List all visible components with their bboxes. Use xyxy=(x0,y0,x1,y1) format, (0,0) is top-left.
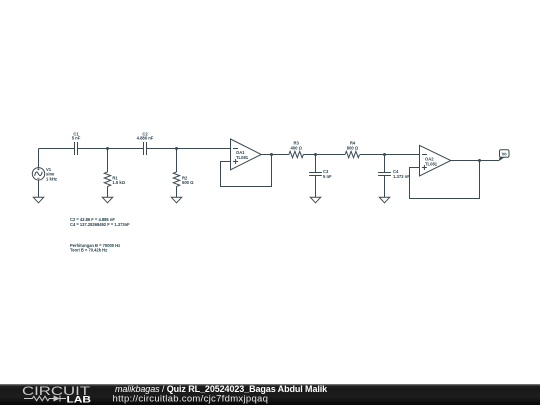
svg-text:TL081: TL081 xyxy=(236,155,249,160)
svg-text:1.373 nF: 1.373 nF xyxy=(393,174,410,179)
svg-text:500 Ω: 500 Ω xyxy=(182,180,194,185)
svg-text:4.886 nF: 4.886 nF xyxy=(137,136,154,141)
svg-text:http://circuitlab.com/cjc7fdmx: http://circuitlab.com/cjc7fdmxjpqaq xyxy=(113,393,269,404)
svg-text:1.5 kΩ: 1.5 kΩ xyxy=(112,180,125,185)
svg-text:400 Ω: 400 Ω xyxy=(290,146,302,151)
svg-text:5 nF: 5 nF xyxy=(72,136,81,141)
svg-text:C4 = 137.28368492 F = 1.373nF: C4 = 137.28368492 F = 1.373nF xyxy=(70,222,130,227)
svg-text:R3: R3 xyxy=(294,140,300,145)
svg-text:800 Ω: 800 Ω xyxy=(347,146,359,151)
svg-text:5 nF: 5 nF xyxy=(323,174,332,179)
svg-text:R4: R4 xyxy=(350,140,356,145)
svg-text:Vo: Vo xyxy=(502,152,507,157)
svg-text:LAB: LAB xyxy=(67,394,92,404)
svg-text:Teori B = 70.42k Hz: Teori B = 70.42k Hz xyxy=(70,247,107,252)
svg-text:1 kHz: 1 kHz xyxy=(46,177,57,182)
svg-text:TL081: TL081 xyxy=(425,161,438,166)
